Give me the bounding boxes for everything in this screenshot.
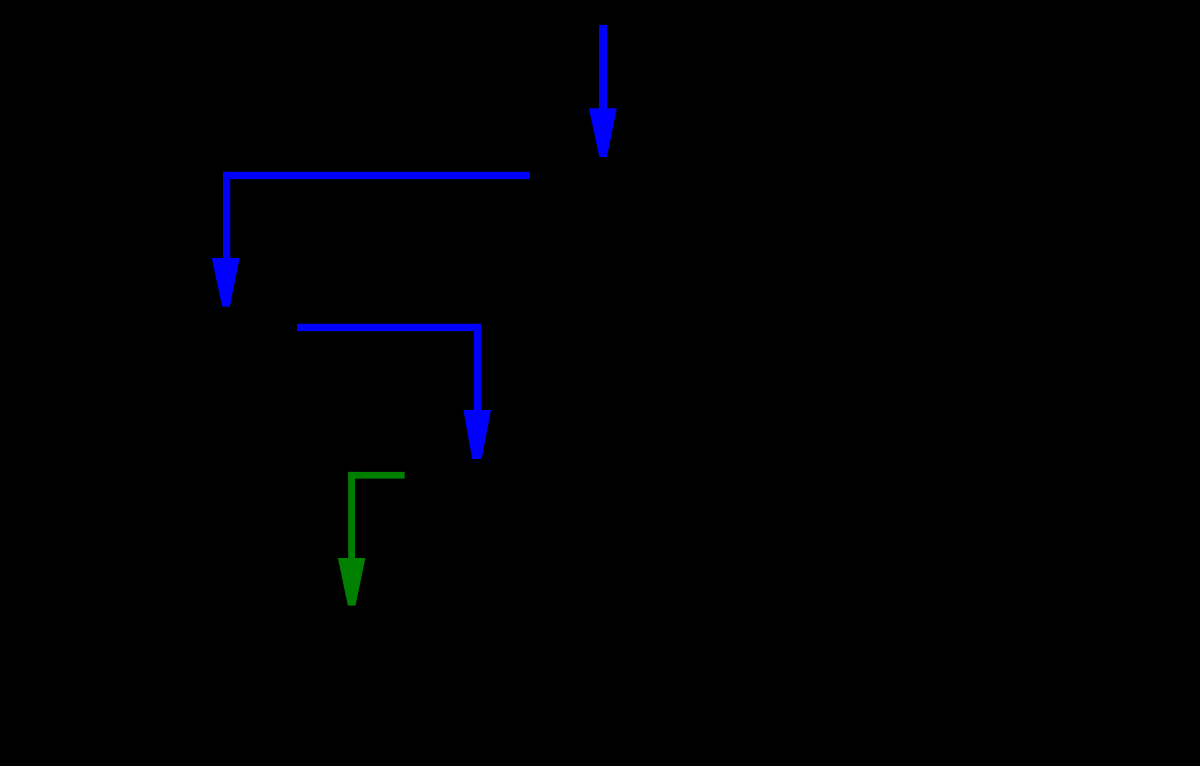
arrow A (blue, straight down) shaft (599, 25, 607, 109)
arrow B vertical wire (223, 172, 230, 258)
arrow D vertical wire (348, 472, 355, 558)
arrow C head (463, 410, 491, 459)
arrow D (green, elbow right-to-left) horizontal wire (348, 472, 405, 479)
arrow C (blue, elbow left-to-right) horizontal wire (297, 324, 481, 331)
arrow B head (212, 258, 240, 307)
arrow A head (589, 108, 617, 157)
arrow C vertical wire (474, 324, 481, 410)
arrow D head (338, 558, 366, 606)
arrow B (blue, elbow right-to-left) horizontal wire (223, 172, 530, 179)
